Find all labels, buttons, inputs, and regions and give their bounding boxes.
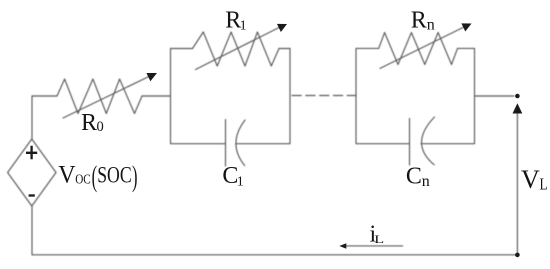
wire: box1 bottom-left to C1	[171, 143, 226, 145]
node dot: output bottom terminal	[515, 253, 520, 258]
svg-text:): )	[132, 160, 137, 193]
svg-text:V: V	[521, 165, 540, 194]
wire: C1 to box1 bottom-right	[236, 143, 290, 145]
capacitor C1 flat plate	[225, 120, 227, 167]
arrow shaft Rn	[380, 27, 465, 69]
svg-text:L: L	[540, 176, 548, 194]
arrowhead Rn	[461, 23, 471, 31]
arrowhead VL (up)	[513, 103, 523, 113]
capacitor C1 curved plate	[236, 120, 245, 166]
wire: R0 to box1	[142, 95, 171, 97]
VL arrow shaft	[516, 112, 518, 255]
svg-text:1: 1	[237, 175, 244, 190]
wire: top rail before R0	[32, 95, 57, 97]
minus sign of source Voc	[29, 194, 35, 196]
svg-text:n: n	[422, 173, 430, 190]
svg-text:R: R	[81, 110, 97, 136]
resistor R1 zigzag	[193, 32, 280, 66]
svg-text:SOC: SOC	[97, 163, 131, 188]
capacitor Cn curved plate	[422, 117, 435, 165]
capacitor Cn flat plate	[409, 119, 411, 166]
wire: source bottom to bottom rail	[31, 206, 33, 255]
svg-text:C: C	[406, 163, 422, 189]
svg-text:1: 1	[240, 19, 247, 34]
wire: box2 top-right segment	[458, 47, 475, 49]
svg-text:R: R	[411, 7, 427, 33]
wire: box1 top-left segment	[171, 48, 193, 50]
resistor Rn zigzag	[379, 33, 458, 65]
dependent voltage source Voc diamond	[8, 139, 56, 206]
wire: dashed link between RC stages	[292, 95, 356, 97]
wire: box2 left vertical	[355, 48, 357, 143]
wire: box2 bottom-left to Cn	[356, 143, 410, 145]
wire: box1 right vertical	[289, 49, 291, 144]
svg-text:n: n	[427, 17, 435, 34]
wire: box2 top-left segment	[356, 47, 379, 49]
wire: box1 left vertical	[170, 49, 172, 144]
node dot: output top terminal	[515, 94, 520, 99]
wire: box2 right vertical	[474, 48, 476, 143]
arrowhead iL (left)	[339, 243, 346, 249]
resistor R0 zigzag	[57, 79, 142, 114]
arrowhead R0	[146, 73, 157, 81]
wire: bottom rail	[32, 254, 517, 256]
svg-text:OC: OC	[75, 172, 91, 187]
wire: Cn to box2 bottom-right	[421, 143, 475, 145]
wire: left vertical from top rail to source	[31, 96, 33, 139]
wire: box1 top-right segment	[279, 48, 290, 50]
svg-text:0: 0	[97, 119, 104, 135]
wire: box2 to output terminal	[475, 95, 515, 97]
arrowhead R1	[277, 24, 287, 32]
arrow shaft R1	[196, 27, 282, 70]
svg-text:L: L	[374, 233, 384, 246]
iL arrow shaft	[345, 245, 403, 247]
svg-text:(: (	[92, 160, 97, 193]
arrow shaft R0	[63, 76, 151, 119]
plus sign of source Voc	[26, 146, 37, 160]
svg-text:V: V	[58, 161, 76, 189]
